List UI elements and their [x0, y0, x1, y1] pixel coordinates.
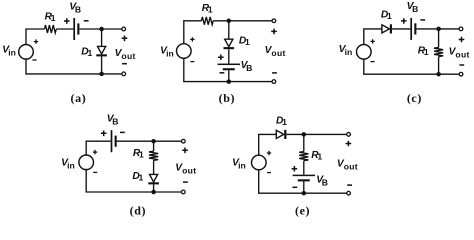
- svg-text:VB: VB: [407, 1, 419, 14]
- diode D1 (d): [148, 174, 159, 184]
- svg-text:VB: VB: [69, 2, 81, 15]
- wire top-left (a): [26, 29, 45, 45]
- battery plus (e): [292, 166, 298, 172]
- wire diode to battery (b): [228, 49, 230, 63]
- resistor R1 (c): [434, 47, 443, 56]
- terminal minus (d): [181, 190, 185, 194]
- node bottom (e): [302, 191, 307, 196]
- wire battery to bottom (b): [228, 70, 230, 81]
- wire diode to output (e): [286, 133, 348, 135]
- svg-text:(d): (d): [130, 204, 146, 218]
- Vout plus (c): [459, 37, 465, 43]
- svg-text:R1: R1: [311, 150, 322, 161]
- svg-text:R1: R1: [202, 3, 213, 14]
- Vout plus (b): [271, 29, 277, 35]
- Vout minus (a): [122, 63, 127, 65]
- diode D1 (a): [96, 46, 107, 56]
- Vout minus (c): [459, 64, 464, 66]
- svg-text:VB: VB: [241, 60, 253, 73]
- terminal plus (e): [347, 133, 351, 137]
- Vout plus (d): [182, 148, 188, 154]
- battery minus (b): [220, 72, 225, 74]
- Vin minus polarity (a): [33, 59, 37, 61]
- wire battery to output (d): [117, 140, 184, 142]
- node top (a): [99, 27, 104, 32]
- wire R1 to output (b): [213, 20, 274, 22]
- svg-text:(a): (a): [71, 91, 87, 105]
- terminal minus (e): [347, 191, 351, 195]
- Vin plus polarity (e): [267, 151, 271, 155]
- Vin plus polarity (c): [370, 39, 374, 43]
- battery minus (e): [293, 186, 298, 188]
- terminal minus (a): [122, 72, 126, 76]
- terminal minus (b): [272, 80, 276, 84]
- battery VB (b): [218, 64, 240, 71]
- wire bottom (e): [259, 170, 349, 193]
- svg-text:Vin: Vin: [2, 45, 16, 58]
- svg-text:D1: D1: [81, 47, 92, 58]
- wire top-left (c): [364, 29, 382, 45]
- Vin minus polarity (e): [267, 172, 271, 174]
- battery minus (d): [120, 131, 125, 133]
- voltage source Vin (e): [251, 155, 266, 170]
- Vout minus (b): [272, 72, 277, 74]
- Vout minus (e): [347, 184, 352, 186]
- wire R1 to VB (a): [56, 28, 73, 30]
- wire bottom (d): [86, 170, 183, 192]
- node bottom (b): [227, 79, 232, 84]
- svg-text:Vin: Vin: [61, 158, 75, 171]
- svg-text:R1: R1: [418, 46, 429, 57]
- Vout minus (d): [183, 181, 188, 183]
- wire top-left (d): [86, 141, 111, 155]
- wire VB to output (a): [79, 28, 123, 30]
- battery plus (d): [101, 131, 107, 137]
- diode D1 (e): [276, 130, 286, 139]
- resistor R1 (d): [149, 151, 158, 160]
- battery VB (e): [293, 175, 315, 182]
- wire branch (e): [303, 134, 305, 193]
- svg-text:R1: R1: [133, 148, 144, 159]
- svg-text:Vin: Vin: [232, 158, 246, 171]
- svg-text:D1: D1: [381, 9, 392, 20]
- wire top-left (b): [184, 21, 202, 44]
- svg-text:Vout: Vout: [449, 46, 470, 59]
- node top (c): [436, 27, 441, 32]
- svg-text:R1: R1: [45, 12, 56, 23]
- node bottom (a): [99, 72, 104, 77]
- diode D1 (c): [382, 24, 392, 33]
- wire bottom (b): [184, 58, 274, 81]
- svg-text:(c): (c): [407, 91, 422, 105]
- svg-text:Vout: Vout: [265, 45, 286, 58]
- Vout plus (a): [122, 36, 128, 42]
- Vin plus polarity (a): [34, 39, 38, 43]
- battery minus (a): [84, 20, 89, 22]
- voltage source Vin (c): [357, 45, 372, 60]
- svg-text:(e): (e): [295, 204, 310, 218]
- battery minus (c): [420, 19, 425, 21]
- battery VB (d): [111, 130, 117, 152]
- svg-text:Vin: Vin: [339, 44, 353, 57]
- node bottom (c): [436, 72, 441, 77]
- wire node to diode (b): [228, 21, 230, 39]
- battery plus (a): [64, 18, 70, 24]
- svg-text:Vin: Vin: [160, 46, 174, 59]
- svg-text:D1: D1: [239, 36, 250, 47]
- resistor R1 (b): [201, 17, 213, 25]
- terminal plus (a): [122, 27, 126, 31]
- resistor R1 (a): [45, 25, 57, 33]
- wire top-left (e): [259, 134, 277, 155]
- svg-text:D1: D1: [132, 171, 143, 182]
- wire diode to battery (c): [392, 28, 410, 30]
- voltage source Vin (b): [177, 44, 192, 59]
- wire bottom (a): [26, 59, 124, 74]
- svg-text:VB: VB: [107, 114, 119, 127]
- node top (d): [151, 139, 156, 144]
- battery VB (a): [73, 18, 79, 40]
- terminal plus (c): [459, 27, 463, 31]
- svg-text:VB: VB: [316, 174, 328, 187]
- voltage source Vin (d): [79, 155, 94, 170]
- diode D1 (b): [224, 39, 235, 49]
- battery VB (c): [410, 18, 416, 40]
- Vout plus (e): [346, 141, 352, 147]
- terminal plus (d): [181, 139, 185, 143]
- wire battery to output (c): [416, 28, 461, 30]
- Vin plus polarity (b): [190, 37, 194, 41]
- Vin plus polarity (d): [93, 150, 97, 154]
- svg-text:Vout: Vout: [175, 163, 196, 176]
- terminal minus (c): [459, 72, 463, 76]
- battery plus (c): [401, 18, 407, 24]
- svg-text:D1: D1: [276, 116, 287, 127]
- voltage source Vin (a): [19, 45, 34, 60]
- node top (b): [227, 19, 232, 24]
- resistor R1 (e): [299, 152, 308, 161]
- wire R1 branch (c): [438, 29, 440, 74]
- svg-text:Vout: Vout: [337, 159, 358, 172]
- wire bottom (c): [364, 59, 461, 74]
- terminal plus (b): [272, 19, 276, 23]
- wire diode branch (a): [101, 29, 103, 74]
- svg-text:Vout: Vout: [115, 48, 136, 61]
- Vin minus polarity (d): [93, 171, 97, 173]
- node top (e): [302, 132, 307, 137]
- Vin minus polarity (b): [190, 61, 194, 63]
- wire branch (d): [153, 141, 155, 192]
- battery plus (b): [218, 55, 224, 61]
- node bottom (d): [151, 190, 156, 195]
- svg-text:(b): (b): [219, 91, 235, 105]
- Vin minus polarity (c): [371, 61, 375, 63]
